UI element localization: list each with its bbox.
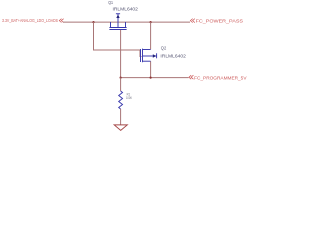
svg-text:IRLML6402: IRLML6402 <box>113 7 139 12</box>
wire Q2 source drop <box>150 61 152 77</box>
wire Q2 gate feed <box>94 22 142 56</box>
svg-text:Q1: Q1 <box>108 0 113 5</box>
node junction at gate-feed tap <box>92 21 94 23</box>
svg-text:3.3V_BAT+ANALOG_LDO_LOADS: 3.3V_BAT+ANALOG_LDO_LOADS <box>2 18 58 23</box>
transistor Q2 (IRLML6402, vertical, gate left, body diode right) <box>141 49 157 63</box>
wire Q2 drain drop <box>150 22 152 49</box>
net label FC_PROGRAMMER_5V <box>189 75 194 79</box>
node junction at Q2 source / bottom net <box>150 77 152 79</box>
resistor R1 zigzag <box>119 91 123 109</box>
wire bottom net <box>121 77 189 79</box>
svg-text:FC_PROGRAMMER_5V: FC_PROGRAMMER_5V <box>194 75 247 81</box>
node junction at Q2 drain tap <box>150 21 152 23</box>
wire Q1 gate drop <box>120 30 122 78</box>
svg-text:FC_POWER_PASS: FC_POWER_PASS <box>196 19 244 25</box>
svg-text:IRLML6402: IRLML6402 <box>160 54 186 59</box>
svg-text:Q2: Q2 <box>161 45 167 50</box>
svg-text:100K: 100K <box>126 96 132 100</box>
net label FC_POWER_PASS <box>190 19 195 23</box>
wire R1 top stub <box>120 78 122 91</box>
transistor Q1 (IRLML6402, horizontal, gate down, body diode up) <box>109 14 126 30</box>
wire top net <box>63 21 190 23</box>
wire R1 bottom stub <box>120 109 122 125</box>
ground <box>114 125 127 130</box>
node junction bottom-left <box>120 77 122 79</box>
